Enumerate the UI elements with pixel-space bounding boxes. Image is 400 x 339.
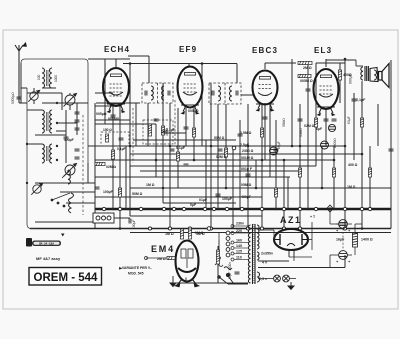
wire EL3 plate — [326, 59, 356, 61]
wire — [95, 176, 290, 178]
trimmer CV3 — [64, 164, 77, 177]
AVC dashed line a — [132, 108, 134, 163]
wire — [283, 160, 285, 229]
svg-text:63µF: 63µF — [347, 116, 351, 124]
svg-text:160: 160 — [236, 239, 242, 243]
svg-text:1M Ω: 1M Ω — [146, 183, 155, 187]
svg-text:1400 Ω: 1400 Ω — [361, 238, 373, 242]
resistor EM4 1MΩ a — [180, 229, 183, 239]
coil T2 secondary — [370, 69, 373, 79]
AVC dashed line b — [174, 100, 176, 145]
wire — [321, 146, 323, 188]
wire — [316, 62, 345, 64]
wire EBC3 base — [256, 103, 274, 105]
wire AZ1 cathode to HT — [289, 256, 312, 258]
IF transformer MF1 (dashed shield) — [142, 83, 173, 103]
coil T1 secondary 4v — [257, 252, 259, 260]
svg-text:0,1µF: 0,1µF — [117, 147, 126, 151]
resistor R mesh11 — [332, 168, 335, 177]
primary taps — [231, 225, 249, 262]
svg-text:100µF: 100µF — [222, 197, 233, 201]
svg-text:150 Ω: 150 Ω — [103, 128, 112, 132]
capacitor electrolytic 16µF a — [339, 220, 348, 229]
svg-text:100: 100 — [37, 74, 41, 80]
svg-text:2x350v: 2x350v — [261, 252, 273, 256]
wire long node — [88, 145, 346, 147]
capacitor electrolytic 16µF b — [339, 251, 348, 260]
capacitor cathode EF9 — [163, 131, 168, 133]
wire — [95, 105, 113, 107]
svg-text:8500Ω: 8500Ω — [333, 138, 337, 148]
wire — [35, 221, 95, 223]
resistor EM4 2MΩ — [167, 256, 175, 259]
wire bottom line — [173, 282, 248, 284]
svg-text:0µF: 0µF — [190, 203, 197, 207]
power transformer T1 core — [253, 224, 256, 284]
wire — [95, 123, 156, 125]
wire EBC3 top lead — [264, 63, 266, 69]
wire lamps — [258, 278, 274, 280]
wire — [299, 104, 301, 229]
wire plate L — [128, 55, 149, 57]
svg-text:100µF: 100µF — [103, 190, 113, 194]
wire AVC line — [133, 139, 236, 141]
antenna — [15, 43, 26, 103]
coil L4 — [50, 110, 52, 133]
wire — [205, 140, 207, 209]
wire — [269, 104, 271, 177]
capacitor MF1 trim2 — [168, 91, 170, 96]
wire — [163, 202, 236, 204]
wire — [325, 109, 327, 146]
coil L3 — [42, 110, 44, 133]
wire — [76, 103, 78, 135]
wire — [27, 143, 42, 145]
decoupling box (dashed) — [101, 132, 129, 146]
transformer hatch — [253, 224, 256, 283]
resistor R mesh7 — [260, 128, 263, 137]
wire left — [27, 92, 62, 94]
capacitor MF2 trim2 — [236, 91, 238, 96]
svg-text:125: 125 — [236, 250, 242, 254]
capacitor 0,1µF — [352, 99, 357, 101]
svg-text:EBC3: EBC3 — [252, 46, 278, 55]
wire — [119, 106, 121, 229]
wire — [344, 59, 346, 229]
wire — [87, 163, 89, 183]
wire — [225, 104, 227, 188]
triangle mark — [61, 234, 65, 237]
arrow variante — [119, 267, 123, 270]
wire — [217, 104, 219, 209]
capacitor under EL3 — [324, 119, 329, 121]
wire — [369, 146, 371, 209]
wire — [42, 87, 56, 89]
wire filament line — [258, 260, 289, 262]
terminal strip PU — [226, 231, 230, 257]
capacitor 100µF left — [95, 187, 100, 189]
capacitor mesh9 — [246, 174, 251, 176]
wire left2 — [27, 109, 42, 111]
wire — [19, 102, 27, 104]
heater bus — [130, 232, 391, 234]
wire — [95, 92, 113, 94]
arrow osc — [62, 170, 70, 178]
wire speaker return — [390, 60, 392, 229]
svg-text:6µF: 6µF — [316, 127, 323, 131]
OREM-544 box — [29, 268, 102, 286]
svg-text:2M Ω: 2M Ω — [303, 66, 312, 70]
wire — [247, 104, 249, 229]
resistor R mesh3 — [161, 126, 164, 135]
wire trimmer lead a — [33, 88, 35, 92]
wire — [177, 108, 179, 188]
wire — [291, 59, 293, 146]
coil MF2 secondary — [230, 86, 233, 101]
resistor R mesh10 — [314, 118, 317, 127]
capacitor 001µF — [306, 89, 311, 91]
resistor 400Ω — [338, 70, 341, 80]
resistor Ra — [216, 250, 219, 264]
resistor R mesh4 — [176, 152, 179, 161]
core L5/L6 — [46, 146, 48, 161]
wire right column — [330, 223, 339, 225]
svg-text:VARIANTE PER V₂: VARIANTE PER V₂ — [122, 266, 152, 270]
svg-text:ECH4: ECH4 — [104, 45, 130, 54]
capacitor MF1 trim — [145, 91, 147, 96]
svg-text:400µF: 400µF — [241, 195, 252, 199]
diamond connector — [327, 205, 333, 212]
wire — [88, 58, 130, 60]
resistor R mesh6 — [224, 148, 227, 157]
coil L5 — [42, 144, 44, 163]
resistor R mesh9 — [298, 168, 301, 177]
svg-text:400 Ω: 400 Ω — [348, 163, 358, 167]
wire AZ1 anode leads — [258, 229, 274, 231]
resistor 005MΩ — [298, 74, 311, 77]
wire — [333, 146, 335, 209]
wire — [239, 120, 241, 209]
mains lead — [218, 240, 220, 258]
coil T1 secondary HT — [257, 225, 259, 249]
resistor 2MΩ — [298, 61, 312, 64]
trimmer CV2 — [64, 94, 77, 107]
wire — [339, 63, 341, 103]
svg-text:+ T: + T — [310, 215, 316, 219]
mains switch — [219, 277, 228, 284]
svg-text:02M Ω: 02M Ω — [216, 155, 227, 159]
capacitor MF2 trim — [212, 91, 214, 96]
wire — [130, 165, 316, 167]
svg-text:005µΩ: 005µΩ — [188, 109, 199, 113]
svg-text:400Ω: 400Ω — [343, 73, 352, 77]
wire — [361, 82, 363, 229]
wire switch lead — [114, 217, 130, 219]
speaker magnet housing — [370, 68, 378, 82]
wire — [61, 93, 63, 110]
wire mains top — [218, 233, 220, 241]
capacitor under EBC3 — [263, 117, 268, 119]
resistor 150Ω — [105, 134, 108, 142]
coil MF1 secondary — [162, 86, 164, 100]
capacitor 05µF mains — [235, 272, 240, 274]
wire — [255, 160, 257, 188]
svg-text:MF 4&7 assy: MF 4&7 assy — [36, 256, 61, 261]
wire caps dashed — [342, 228, 344, 250]
wire trimmer2 lead2 — [69, 105, 71, 110]
svg-text:05MΩ: 05MΩ — [282, 118, 286, 127]
capacitor 100µF2 — [129, 219, 131, 224]
wire — [315, 63, 317, 166]
resistor R mesh13 — [368, 168, 371, 177]
capacitor under ECH4 — [111, 115, 116, 117]
wire — [217, 264, 219, 283]
wire — [21, 87, 27, 89]
wire EF9 base — [181, 104, 199, 106]
svg-text:005MΩ: 005MΩ — [108, 117, 120, 121]
svg-text:001M Ω: 001M Ω — [241, 156, 254, 160]
resistor R mesh1 — [111, 150, 114, 159]
ground EM4 — [170, 276, 176, 287]
wire trimmer2 lead — [69, 93, 71, 95]
wire — [96, 102, 140, 104]
capacitor mesh4 — [218, 149, 223, 151]
capacitor C7 — [75, 128, 80, 130]
wire left rail — [27, 88, 36, 229]
tube EM4 (magic eye) — [174, 241, 200, 288]
svg-text:01µF: 01µF — [199, 198, 208, 202]
wire trimmer lead b — [33, 100, 35, 104]
wire — [261, 104, 263, 229]
wire T2 top — [356, 65, 363, 67]
wire — [20, 63, 22, 103]
wire — [147, 103, 149, 146]
pilot lamp 1 — [274, 275, 281, 282]
svg-text:230v: 230v — [236, 222, 244, 226]
output transformer T2 — [365, 66, 368, 81]
wire — [65, 110, 67, 163]
wire ECH4 top cap — [115, 59, 117, 67]
tall coil L7 — [69, 193, 74, 213]
wire field coil — [354, 224, 356, 233]
gang link (dashed) — [82, 115, 84, 215]
wire — [232, 146, 234, 229]
wire — [193, 108, 195, 160]
svg-text:145: 145 — [236, 244, 242, 248]
wire — [130, 153, 362, 155]
wire — [135, 103, 137, 146]
pilot lamp 2 — [283, 275, 290, 282]
bus junction beads — [102, 207, 371, 230]
wire — [307, 63, 309, 209]
coil T2 primary — [361, 67, 363, 80]
wire IF2 drop — [236, 64, 238, 84]
tube ECH4 (triode-hexode) — [103, 68, 129, 113]
svg-text:110: 110 — [236, 256, 242, 260]
svg-text:AZ1: AZ1 — [280, 215, 302, 225]
capacitor mesh6 — [274, 149, 279, 151]
resistor cathode EF9 — [148, 124, 151, 136]
svg-text:GM 54-C&A: GM 54-C&A — [39, 242, 54, 245]
wire IF2 to EBC3 — [241, 94, 253, 96]
wire — [353, 93, 355, 160]
svg-text:220: 220 — [236, 229, 242, 233]
svg-text:50M Ω: 50M Ω — [132, 192, 143, 196]
wire HT out — [258, 267, 345, 269]
wire 1M line — [130, 187, 391, 189]
wire — [155, 124, 157, 177]
wire — [94, 103, 96, 229]
resistor R mesh5 — [192, 128, 195, 137]
svg-text:005M Ω: 005M Ω — [300, 79, 313, 83]
core L1/L2 — [46, 70, 48, 86]
wire — [201, 64, 203, 147]
wire — [217, 246, 219, 250]
wire — [275, 120, 277, 209]
svg-text:MOD. 545: MOD. 545 — [128, 272, 144, 276]
coil T2 inner — [374, 70, 377, 80]
capacitor C8 — [75, 149, 80, 151]
capacitor mesh2 — [170, 149, 175, 151]
coil L6 — [50, 144, 52, 163]
wire — [165, 132, 186, 134]
wire T2 bottom — [361, 81, 363, 82]
wire — [66, 202, 95, 204]
tube EL3 (output pentode) — [314, 69, 339, 116]
svg-text:OREM - 544: OREM - 544 — [34, 272, 99, 284]
wire — [344, 255, 346, 268]
wire EL3 top lead — [325, 59, 327, 67]
wire — [377, 104, 379, 146]
wire EL3 base — [317, 106, 335, 108]
resistor R mesh2 — [118, 188, 121, 197]
svg-text:0,1µF: 0,1µF — [176, 146, 186, 150]
IF transformer MF2 (dashed shield) — [209, 83, 241, 104]
wire EF9 top cap — [188, 64, 190, 68]
junction dots left rail — [26, 102, 58, 184]
svg-text:0,5M Ω: 0,5M Ω — [240, 131, 252, 135]
capacitor electrolytic 8µF — [321, 141, 329, 149]
capacitor mesh5 — [238, 134, 243, 136]
capacitor 500µF — [64, 137, 69, 139]
svg-text:EF9: EF9 — [179, 45, 197, 54]
resistor EM4 1MΩ b — [188, 229, 191, 239]
svg-text:100µF: 100µF — [132, 220, 136, 229]
wire — [287, 177, 289, 209]
capacitor mesh3 — [184, 164, 189, 166]
ground bus (thick) — [95, 208, 391, 210]
core L3/L4 — [46, 112, 48, 131]
svg-text:1M Ω: 1M Ω — [196, 232, 205, 236]
terminal circle — [207, 227, 211, 231]
svg-text:02M Ω: 02M Ω — [106, 165, 117, 169]
capacitor mesh10 — [216, 194, 221, 196]
svg-text:1000: 1000 — [54, 75, 58, 82]
capacitor mesh8 — [332, 119, 337, 121]
capacitor electrolytic 6µF — [328, 124, 335, 131]
capacitor antenna 5000pF — [17, 97, 22, 99]
ground lamp — [288, 282, 294, 289]
capacitor under EF9 — [184, 127, 189, 129]
svg-text:1M Ω: 1M Ω — [165, 232, 174, 236]
svg-text:2,5µF: 2,5µF — [240, 143, 250, 147]
band switch G.P.O — [93, 213, 114, 223]
field coil 1400Ω — [353, 233, 358, 247]
wire 50M line — [95, 196, 262, 198]
wire — [130, 215, 262, 217]
wire EF9 cathode — [185, 108, 187, 146]
wire — [56, 130, 66, 132]
coil L2 — [50, 68, 52, 88]
svg-text:005µΩ: 005µΩ — [96, 112, 107, 116]
label mains squiggle — [215, 264, 223, 267]
coil L8 — [68, 170, 70, 184]
wire EBC3 top — [265, 62, 296, 64]
capacitor mesh7 — [298, 119, 303, 121]
wire — [140, 170, 300, 172]
svg-text:6,3 v: 6,3 v — [259, 277, 267, 281]
svg-text:50M Ω: 50M Ω — [214, 136, 225, 140]
wire — [104, 59, 106, 124]
coil T1 secondary 6.3v — [257, 272, 260, 282]
capacitor 0,1µF box — [119, 138, 124, 140]
wire — [56, 122, 77, 124]
resistor R mesh12 — [360, 118, 363, 127]
tone switch — [224, 267, 234, 284]
svg-text:001µ F: 001µ F — [241, 167, 253, 171]
tube AZ1 (rectifier) — [274, 229, 308, 257]
wire EM4 bottom — [185, 278, 187, 284]
svg-text:0,1µF: 0,1µF — [356, 98, 366, 102]
capacitor electrolytic 60µF — [270, 147, 278, 155]
svg-text:05M Ω: 05M Ω — [241, 183, 252, 187]
tube EF9 (IF pentode) — [178, 67, 203, 115]
wire — [95, 159, 334, 161]
svg-text:60µF: 60µF — [277, 141, 281, 149]
svg-text:5000µΩ: 5000µΩ — [11, 92, 15, 104]
wire — [42, 102, 88, 104]
wire — [95, 119, 130, 121]
resistor R mesh8 — [274, 188, 277, 197]
wire — [162, 83, 164, 203]
coil MF1 primary — [151, 86, 153, 100]
svg-text:1M Ω: 1M Ω — [347, 185, 356, 189]
capacitor mesh11 — [389, 149, 394, 151]
coil T1 primary — [248, 225, 250, 283]
capacitor mesh1 — [154, 119, 159, 121]
wire ECH4 base — [107, 103, 125, 105]
svg-text:02M Ω: 02M Ω — [304, 124, 315, 128]
capacitor C6 — [75, 120, 80, 122]
logo GM 54-C&A — [26, 238, 61, 247]
wire osc — [60, 191, 95, 193]
capacitor C9 — [75, 157, 80, 159]
wire antenna loop — [21, 59, 88, 163]
terminal circle AVC — [232, 146, 236, 150]
svg-text:EL3: EL3 — [314, 46, 332, 55]
wire EM4 grid — [146, 257, 167, 259]
trimmer CV1 — [28, 90, 39, 101]
coil L1 — [42, 68, 45, 88]
speaker LS — [379, 64, 390, 88]
coil MF2 primary — [218, 86, 221, 101]
wire ECH4 cathode — [112, 106, 114, 209]
wire plate line — [123, 63, 237, 65]
cathode RC box EF9 (dashed) — [143, 120, 173, 144]
svg-text:16µF: 16µF — [336, 238, 345, 242]
capacitor C5 — [75, 112, 80, 114]
wire — [129, 64, 131, 217]
